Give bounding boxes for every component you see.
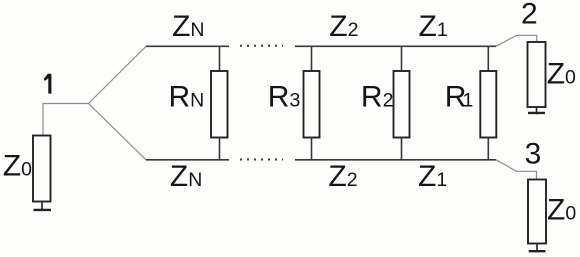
wire port-1 down to Z0 load — [42, 104, 44, 136]
resistor Z0 (port-2 load) — [528, 42, 546, 107]
wire split diagonal to bottom branch — [89, 104, 147, 160]
resistor R2 — [394, 71, 410, 138]
node stub RN bottom — [219, 138, 221, 160]
wire bottom bus segment (ZN section) — [146, 159, 229, 161]
ground (port-2 load) — [528, 107, 545, 114]
wire bottom dotted continuation — [240, 159, 283, 161]
node stub R1 bottom — [487, 138, 489, 160]
node stub RN top — [219, 46, 221, 71]
node stub R3 top — [311, 46, 313, 71]
node stub R2 top — [401, 46, 403, 71]
wire to port 2 — [496, 35, 537, 46]
node stub R1 top — [487, 46, 489, 71]
wire to port 3 — [496, 160, 537, 180]
resistor R3 — [304, 71, 320, 138]
resistor R1 — [480, 71, 496, 138]
wire bottom bus segment (Z2 / Z1 sections) — [295, 159, 496, 161]
svg-text:2: 2 — [521, 0, 538, 30]
svg-text:3: 3 — [525, 137, 542, 170]
resistor Z0 (port-3 load) — [528, 180, 546, 244]
resistor Z0 (port-1 load) — [33, 136, 51, 202]
wire top bus segment (ZN section) — [146, 45, 229, 47]
wire top bus segment (Z2 / Z1 sections) — [295, 45, 496, 47]
ground (port-1 load) — [34, 202, 52, 212]
ground (port-3 load) — [529, 244, 546, 253]
node stub R2 bottom — [401, 138, 403, 160]
wire split diagonal to top branch — [89, 46, 147, 103]
wire port-1 horizontal — [43, 103, 89, 105]
port label 1 — [44, 74, 52, 94]
node stub R3 bottom — [311, 138, 313, 160]
wire top dotted continuation — [240, 45, 283, 47]
resistor RN — [211, 71, 228, 138]
